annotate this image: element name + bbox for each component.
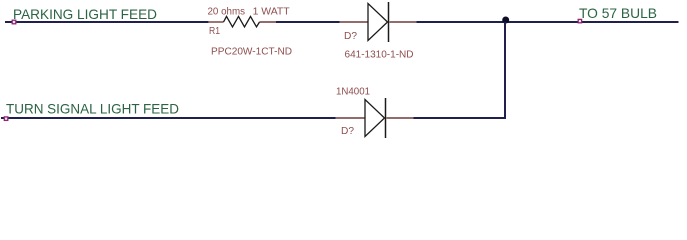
wire riser junction to bottom — [504, 22, 506, 118]
svg-text:PARKING LIGHT FEED: PARKING LIGHT FEED — [13, 6, 157, 22]
resistor R1 — [208, 16, 276, 27]
svg-text:1 WATT: 1 WATT — [253, 6, 290, 17]
svg-text:1N4001: 1N4001 — [336, 87, 370, 98]
wire junction to TO 57 BULB — [505, 21, 679, 23]
port square TO 57 BULB — [578, 19, 581, 22]
svg-text:R1: R1 — [209, 26, 220, 37]
value label 20 ohms 1 WATT — [208, 6, 290, 17]
wire D? top to junction — [417, 21, 506, 23]
svg-text:TURN SIGNAL LIGHT FEED: TURN SIGNAL LIGHT FEED — [6, 101, 179, 117]
wire R1 to D? top — [276, 21, 340, 23]
junction dot — [502, 17, 509, 24]
wire parking feed to R1 — [5, 21, 209, 23]
svg-text:D?: D? — [341, 126, 354, 137]
port square parking feed — [12, 20, 16, 24]
svg-text:641-1310-1-ND: 641-1310-1-ND — [345, 50, 414, 61]
port square turn signal feed — [4, 117, 8, 121]
wire D? bottom to riser corner — [414, 117, 507, 119]
svg-text:D?: D? — [344, 31, 357, 42]
wire turn signal feed to D? bottom — [1, 117, 336, 119]
diode D? bottom — [336, 98, 414, 138]
svg-text:TO 57 BULB: TO 57 BULB — [579, 5, 657, 21]
svg-text:20 ohms: 20 ohms — [208, 6, 246, 17]
diode D? top — [340, 2, 417, 42]
svg-text:PPC20W-1CT-ND: PPC20W-1CT-ND — [211, 47, 292, 58]
